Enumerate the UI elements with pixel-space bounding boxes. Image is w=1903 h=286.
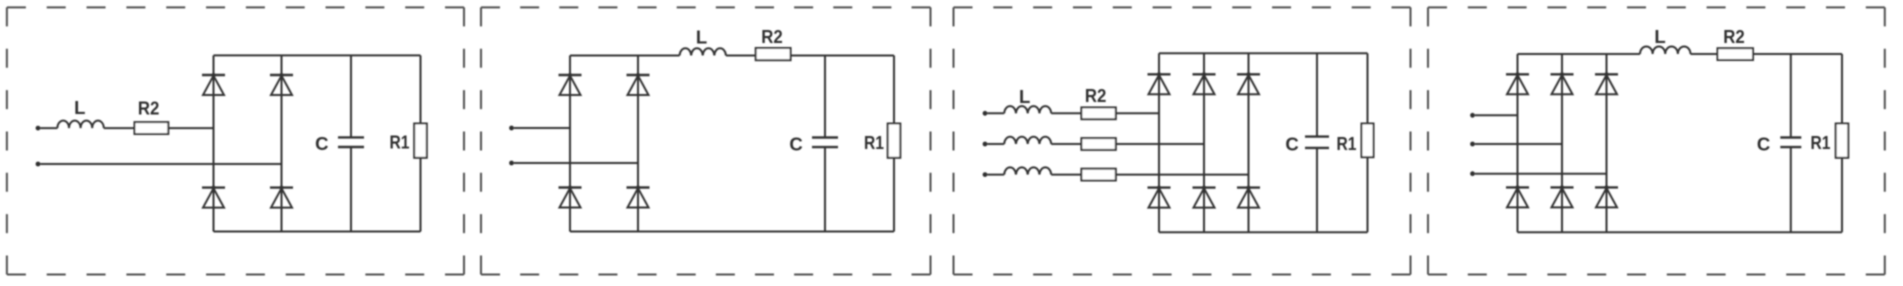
svg-text:L: L (74, 97, 85, 118)
svg-text:L: L (696, 27, 707, 48)
svg-text:R1: R1 (1811, 132, 1831, 153)
svg-text:L: L (1019, 86, 1030, 107)
svg-text:R2: R2 (761, 26, 783, 47)
svg-text:C: C (789, 134, 802, 155)
svg-text:R2: R2 (1085, 85, 1107, 106)
svg-text:C: C (1757, 134, 1770, 155)
svg-text:R2: R2 (138, 97, 160, 118)
svg-text:C: C (315, 133, 328, 154)
svg-text:C: C (1285, 134, 1298, 155)
svg-text:R1: R1 (390, 132, 410, 153)
svg-text:L: L (1654, 26, 1665, 47)
svg-text:R2: R2 (1723, 26, 1745, 47)
svg-text:R1: R1 (864, 132, 884, 153)
svg-text:R1: R1 (1337, 133, 1357, 154)
